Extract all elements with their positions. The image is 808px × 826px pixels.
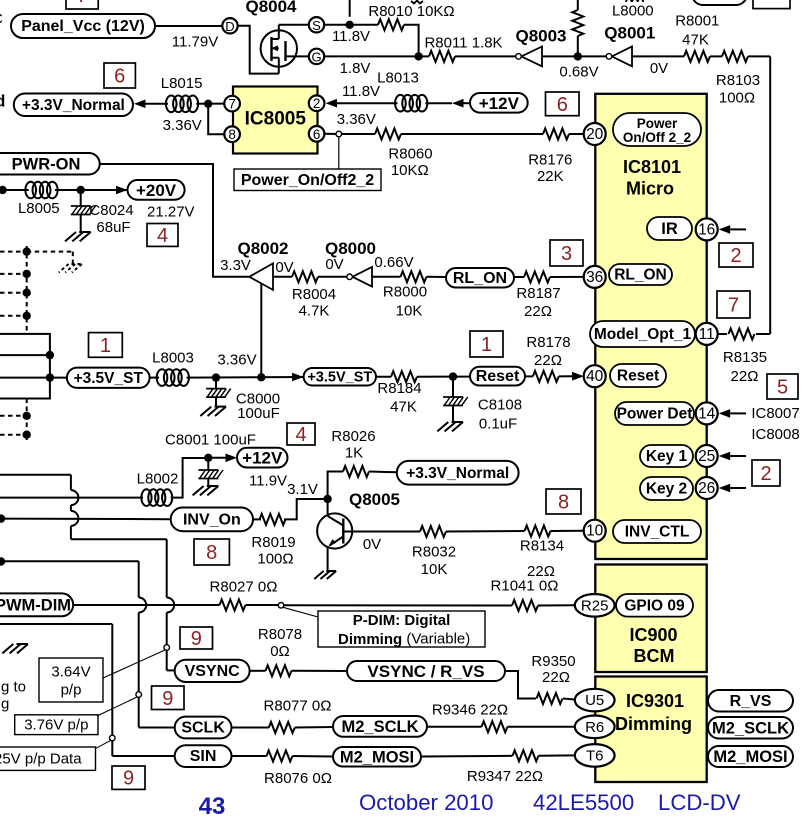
svg-text:2: 2: [313, 96, 321, 111]
svg-text:C: C: [0, 11, 3, 28]
svg-text:11.8V: 11.8V: [342, 83, 380, 100]
svg-text:+20V: +20V: [136, 181, 177, 200]
svg-text:+12V: +12V: [479, 94, 520, 113]
svg-text:IR: IR: [661, 220, 678, 238]
svg-text:Q8001: Q8001: [604, 24, 655, 43]
svg-text:25V p/p Data: 25V p/p Data: [0, 751, 82, 768]
svg-text:21.27V: 21.27V: [147, 203, 195, 220]
svg-text:22Ω: 22Ω: [542, 669, 570, 686]
svg-text:3.64V: 3.64V: [51, 664, 90, 681]
svg-text:Power_On/Off2_2: Power_On/Off2_2: [241, 172, 374, 189]
svg-text:R8019: R8019: [251, 534, 295, 551]
svg-text:S: S: [312, 18, 321, 33]
svg-text:100Ω: 100Ω: [719, 90, 755, 107]
svg-text:R8010 10KΩ: R8010 10KΩ: [368, 3, 454, 20]
svg-text:1: 1: [481, 334, 492, 356]
svg-text:R8060: R8060: [388, 146, 432, 163]
svg-text:1: 1: [100, 335, 111, 357]
svg-text:R8187: R8187: [516, 285, 560, 302]
svg-text:C8108: C8108: [478, 397, 522, 414]
svg-text:3.76V p/p: 3.76V p/p: [24, 717, 88, 734]
svg-text:R25: R25: [581, 597, 609, 614]
svg-text:Reset: Reset: [476, 368, 520, 385]
svg-text:IC8008: IC8008: [751, 426, 799, 443]
svg-text:11.8V: 11.8V: [332, 28, 370, 45]
svg-text:9: 9: [123, 768, 134, 790]
svg-text:26: 26: [698, 480, 715, 497]
svg-text:7: 7: [728, 295, 739, 317]
svg-text:R6: R6: [585, 719, 604, 736]
svg-text:R8032: R8032: [412, 544, 456, 561]
svg-text:43: 43: [199, 793, 226, 820]
svg-text:R_VS: R_VS: [730, 693, 772, 710]
svg-text:20: 20: [586, 126, 604, 143]
svg-text:+3.5V_ST: +3.5V_ST: [74, 370, 144, 387]
svg-text:Key 2: Key 2: [646, 481, 687, 498]
svg-text:Dimming: Dimming: [615, 714, 692, 734]
svg-text:Q8002: Q8002: [237, 239, 288, 258]
svg-text:d: d: [0, 92, 5, 111]
svg-text:Model_Opt_1: Model_Opt_1: [594, 326, 692, 343]
svg-text:M2_MOSI: M2_MOSI: [713, 748, 787, 766]
svg-text:SCLK: SCLK: [181, 720, 225, 737]
svg-text:p/p: p/p: [61, 682, 82, 699]
svg-text:R8000: R8000: [383, 284, 427, 301]
svg-text:R9347 22Ω: R9347 22Ω: [467, 768, 543, 785]
svg-text:R8077 0Ω: R8077 0Ω: [264, 698, 332, 715]
svg-text:3: 3: [561, 243, 572, 265]
svg-text:BCM: BCM: [634, 646, 675, 666]
svg-text:Power Det: Power Det: [617, 406, 693, 423]
svg-text:M2_MOSI: M2_MOSI: [340, 748, 414, 766]
svg-text:100uF: 100uF: [237, 405, 280, 422]
svg-text:R8103: R8103: [716, 72, 760, 89]
svg-text:+3.3V_Normal: +3.3V_Normal: [406, 465, 509, 482]
svg-text:+12V: +12V: [242, 449, 283, 468]
svg-text:1.8V: 1.8V: [340, 60, 371, 77]
svg-text:11.79V: 11.79V: [172, 34, 218, 51]
svg-text:IC8005: IC8005: [245, 109, 307, 130]
svg-text:Q8004: Q8004: [245, 0, 297, 16]
svg-text:IC900: IC900: [629, 625, 677, 645]
svg-text:3.3V: 3.3V: [220, 257, 251, 274]
svg-text:C8001 100uF: C8001 100uF: [165, 432, 256, 449]
svg-text:L8015: L8015: [161, 75, 203, 92]
svg-text:0V: 0V: [363, 536, 381, 553]
svg-text:On/Off 2_2: On/Off 2_2: [623, 130, 691, 145]
svg-text:PWM-DIM: PWM-DIM: [0, 596, 71, 614]
svg-text:IC9301: IC9301: [626, 691, 684, 711]
svg-text:LCD-DV: LCD-DV: [658, 790, 741, 815]
svg-text:g: g: [1, 696, 9, 713]
svg-text:L8002: L8002: [137, 471, 179, 488]
svg-text:9: 9: [162, 688, 173, 710]
svg-text:L8000: L8000: [612, 2, 654, 19]
svg-text:Q8005: Q8005: [349, 490, 400, 509]
svg-text:R8076 0Ω: R8076 0Ω: [264, 770, 332, 787]
svg-text:7: 7: [77, 0, 88, 7]
svg-text:INV_On: INV_On: [183, 511, 241, 528]
svg-text:R8011 1.8K: R8011 1.8K: [424, 35, 502, 52]
svg-text:7: 7: [228, 97, 236, 112]
svg-text:0V: 0V: [325, 256, 343, 273]
svg-text:36: 36: [586, 269, 603, 286]
svg-text:R1041 0Ω: R1041 0Ω: [491, 578, 559, 595]
svg-text:Micro: Micro: [626, 179, 674, 199]
svg-text:R8001: R8001: [675, 12, 719, 29]
svg-text:9: 9: [191, 628, 202, 650]
svg-text:4: 4: [157, 225, 168, 247]
svg-text:4: 4: [295, 424, 306, 446]
svg-text:6: 6: [313, 127, 321, 142]
svg-text:68uF: 68uF: [96, 219, 130, 236]
svg-text:VSYNC / R_VS: VSYNC / R_VS: [367, 662, 484, 681]
svg-text:R8027 0Ω: R8027 0Ω: [210, 579, 278, 596]
svg-text:3.36V: 3.36V: [337, 111, 376, 128]
svg-text:Q8000: Q8000: [325, 239, 376, 258]
svg-text:Q8003: Q8003: [515, 27, 566, 46]
svg-text:3.1V: 3.1V: [287, 481, 318, 498]
svg-text:SIN: SIN: [190, 748, 217, 765]
svg-text:+3.5V_ST: +3.5V_ST: [307, 369, 372, 385]
svg-text:22Ω: 22Ω: [731, 368, 759, 385]
svg-text:g to: g to: [1, 679, 26, 696]
svg-text:Dimming (Variable): Dimming (Variable): [338, 630, 470, 647]
svg-text:R9346 22Ω: R9346 22Ω: [432, 702, 508, 719]
svg-text:Key 1: Key 1: [646, 448, 688, 465]
svg-text:IC8007: IC8007: [751, 405, 799, 422]
svg-text:C8024: C8024: [89, 202, 133, 219]
svg-text:October 2010: October 2010: [359, 790, 493, 815]
svg-text:Power: Power: [637, 116, 678, 131]
svg-text:U5: U5: [585, 692, 604, 709]
svg-text:R8176: R8176: [528, 152, 572, 169]
svg-text:Reset: Reset: [617, 368, 659, 385]
svg-text:T6: T6: [586, 747, 604, 764]
svg-text:47K: 47K: [390, 399, 417, 416]
svg-text:0.66V: 0.66V: [374, 254, 413, 271]
svg-text:PWR-ON: PWR-ON: [12, 155, 81, 173]
svg-text:G: G: [311, 49, 321, 64]
svg-text:22Ω: 22Ω: [534, 352, 562, 369]
svg-text:Panel_Vcc (12V): Panel_Vcc (12V): [21, 18, 145, 35]
svg-text:R8184: R8184: [377, 380, 421, 397]
svg-text:8: 8: [558, 492, 569, 514]
svg-text:2: 2: [730, 245, 741, 267]
svg-text:L8013: L8013: [377, 70, 419, 87]
svg-text:4.7K: 4.7K: [299, 303, 330, 320]
svg-text:M2_SCLK: M2_SCLK: [341, 718, 418, 736]
svg-text:25: 25: [698, 448, 715, 465]
svg-text:L8003: L8003: [152, 350, 194, 367]
svg-text:8: 8: [228, 127, 236, 142]
svg-text:P-DIM: Digital: P-DIM: Digital: [353, 612, 451, 629]
svg-text:16: 16: [698, 221, 715, 238]
svg-text:8: 8: [206, 542, 217, 564]
svg-text:RL_ON: RL_ON: [614, 267, 667, 284]
svg-text:1K: 1K: [345, 444, 363, 461]
svg-text:2: 2: [760, 463, 771, 485]
svg-text:10: 10: [586, 523, 604, 540]
svg-text:+3.3V_Normal: +3.3V_Normal: [22, 97, 125, 114]
svg-text:R8004: R8004: [292, 286, 336, 303]
svg-text:0.1uF: 0.1uF: [479, 416, 517, 433]
svg-text:10K: 10K: [421, 561, 448, 578]
svg-text:R8026: R8026: [331, 428, 375, 445]
svg-text:INV_CTL: INV_CTL: [625, 524, 690, 541]
svg-text:R8178: R8178: [526, 334, 570, 351]
svg-text:100Ω: 100Ω: [257, 551, 293, 568]
svg-text:RL_ON: RL_ON: [453, 270, 507, 287]
svg-text:0V: 0V: [650, 60, 668, 77]
svg-text:22Ω: 22Ω: [524, 303, 552, 320]
svg-text:6: 6: [557, 94, 568, 116]
svg-text:5: 5: [777, 377, 788, 399]
svg-text:14: 14: [698, 405, 716, 422]
svg-text:47K: 47K: [682, 31, 709, 48]
svg-text:42LE5500: 42LE5500: [533, 790, 634, 815]
svg-text:D: D: [225, 19, 234, 34]
svg-text:R8078: R8078: [258, 626, 302, 643]
svg-text:GPIO 09: GPIO 09: [624, 597, 685, 614]
svg-text:IC8101: IC8101: [623, 157, 681, 177]
svg-text:10KΩ: 10KΩ: [391, 162, 429, 179]
svg-text:R8134: R8134: [520, 538, 564, 555]
svg-text:0Ω: 0Ω: [270, 643, 290, 660]
svg-text:VSYNC: VSYNC: [185, 663, 241, 680]
svg-text:10K: 10K: [396, 303, 423, 320]
svg-text:R8135: R8135: [723, 349, 767, 366]
svg-text:22K: 22K: [537, 168, 564, 185]
svg-text:R9350: R9350: [531, 653, 575, 670]
svg-text:0.68V: 0.68V: [559, 64, 598, 81]
svg-text:11: 11: [699, 326, 715, 343]
svg-text:3.36V: 3.36V: [217, 352, 256, 369]
svg-text:11.9V: 11.9V: [249, 473, 287, 490]
svg-text:40: 40: [586, 368, 604, 385]
svg-text:L8005: L8005: [18, 200, 60, 217]
svg-text:M2_SCLK: M2_SCLK: [712, 719, 789, 737]
svg-text:3.36V: 3.36V: [163, 117, 202, 134]
svg-text:6: 6: [114, 66, 125, 88]
svg-text:0V: 0V: [275, 259, 293, 276]
